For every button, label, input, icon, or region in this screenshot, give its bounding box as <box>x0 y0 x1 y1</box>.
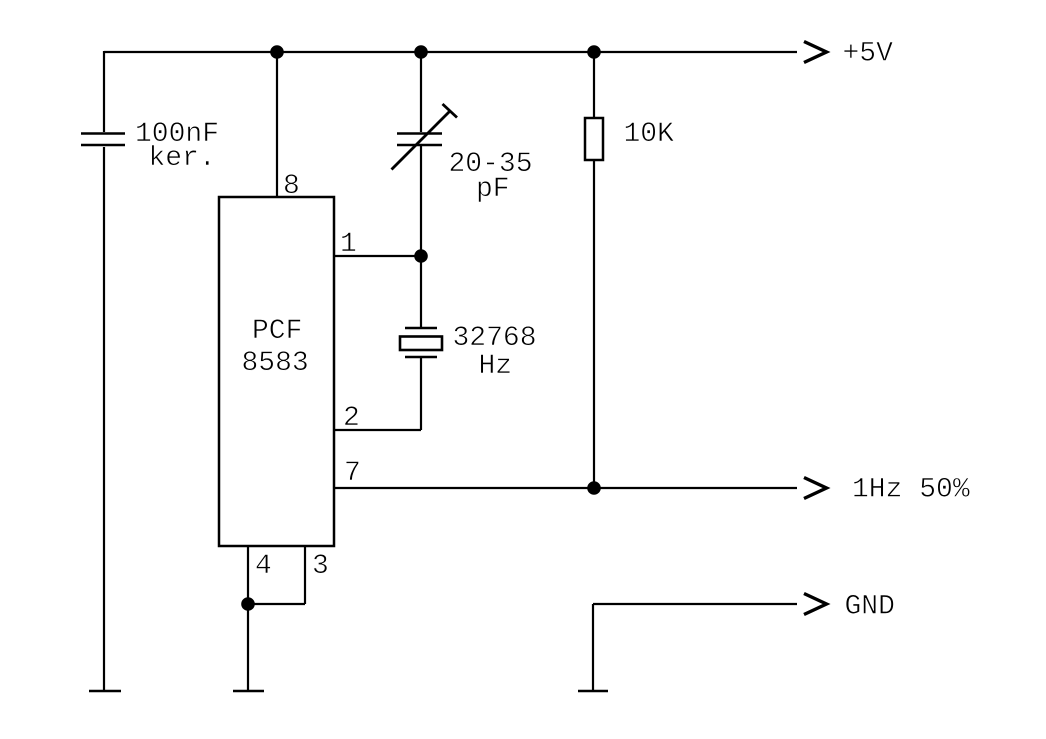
wire GND rail <box>593 603 797 605</box>
resistor R1 body <box>585 118 603 160</box>
wire node A vertical (C2 bottom through pin1 to crystal) <box>420 146 422 327</box>
ground (middle) <box>233 690 264 693</box>
wire pin 8 (rail to IC top) <box>276 52 278 197</box>
svg-text:3: 3 <box>312 551 329 582</box>
wire pin 3 vertical <box>304 546 306 604</box>
svg-text:Hz: Hz <box>479 351 513 382</box>
wire pin 1 <box>334 255 421 257</box>
wire trimmer top (rail to C2) <box>420 52 422 132</box>
node dot pin1/trimmer <box>414 249 428 263</box>
svg-text:7: 7 <box>344 458 361 489</box>
wire pin 2 <box>334 429 421 431</box>
wire pin 4 (IC bottom to ground) <box>247 546 249 691</box>
wire pin 7 / 1Hz output <box>334 487 797 489</box>
svg-text:+5V: +5V <box>843 39 894 70</box>
svg-text:1Hz 50%: 1Hz 50% <box>852 475 970 506</box>
crystal X1 body <box>400 337 442 351</box>
trimmer capacitor C2 diagonal adjuster <box>392 112 450 170</box>
svg-text:8: 8 <box>283 171 300 202</box>
wire crystal bottom to pin 2 <box>420 358 422 430</box>
wire +5V rail <box>104 51 797 53</box>
node dot rail/trimmer <box>414 45 428 59</box>
capacitor C1 plates <box>81 134 125 146</box>
svg-text:8583: 8583 <box>242 348 309 379</box>
svg-text:pF: pF <box>476 174 510 205</box>
wire resistor bottom (R1 to pin7 node) <box>593 160 595 488</box>
op-amp U1 PCF8583 IC box <box>219 197 334 546</box>
node dot rail/resistor <box>587 45 601 59</box>
svg-text:4: 4 <box>255 551 272 582</box>
svg-text:PCF: PCF <box>252 316 302 347</box>
svg-text:2: 2 <box>343 403 360 434</box>
node dot pin7/resistor <box>587 481 601 495</box>
ground (right) <box>578 690 608 693</box>
1Hz arrowhead <box>804 478 827 499</box>
wire left branch lower (C1 to ground) <box>103 147 105 691</box>
svg-text:GND: GND <box>845 592 895 623</box>
svg-text:10K: 10K <box>624 119 675 150</box>
ground (left) <box>89 690 121 693</box>
+5V arrowhead <box>804 42 827 63</box>
trimmer capacitor C2 plates <box>397 134 442 146</box>
crystal X1 bottom plate <box>405 356 437 358</box>
svg-text:1: 1 <box>340 229 357 260</box>
svg-text:ker.: ker. <box>149 143 216 174</box>
svg-text:32768: 32768 <box>453 323 537 354</box>
GND arrowhead <box>804 594 827 615</box>
trimmer capacitor C2 T-bar <box>443 104 458 118</box>
wire resistor top (rail to R1) <box>593 52 595 118</box>
wire pin 3 horizontal to node B <box>248 603 305 605</box>
wire left branch upper (rail to C1) <box>103 51 105 132</box>
wire GND down <box>592 604 594 691</box>
node dot pin4/pin3 <box>241 597 255 611</box>
node dot rail/pin8 <box>270 45 284 59</box>
crystal X1 top plate <box>405 327 437 329</box>
